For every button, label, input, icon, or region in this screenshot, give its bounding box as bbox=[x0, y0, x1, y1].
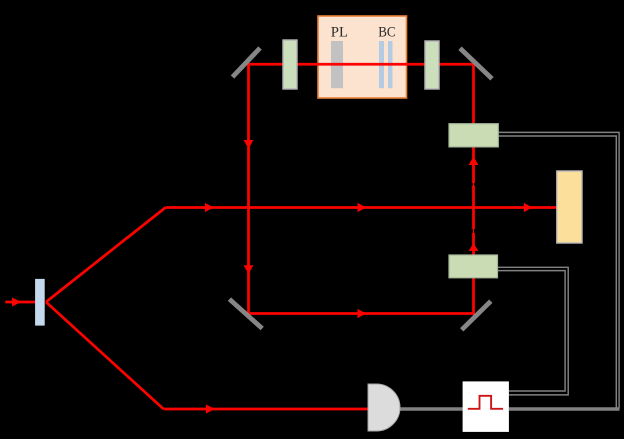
svg-text:PL: PL bbox=[331, 25, 348, 41]
svg-text:BC: BC bbox=[378, 25, 395, 41]
